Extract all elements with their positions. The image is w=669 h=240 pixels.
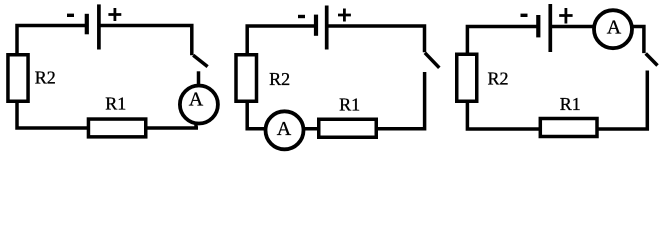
battery B2 negative plate [314, 15, 318, 36]
resistor R2 (box) [8, 55, 28, 102]
label + (battery B3 positive) [559, 8, 572, 24]
battery B3 positive plate [548, 4, 552, 52]
svg-text:R2: R2 [487, 69, 508, 89]
svg-text:R1: R1 [105, 93, 126, 113]
resistor R1 (box) [319, 119, 377, 137]
svg-text:R1: R1 [339, 95, 360, 115]
svg-text:A: A [277, 118, 292, 140]
wire: stub from ammeter bottom to bottom wire [194, 122, 198, 129]
resistor R2 (box) [457, 54, 477, 101]
switch S1 blade (open) [193, 55, 207, 66]
battery B3 negative plate [536, 15, 540, 37]
battery B2 positive plate [325, 6, 329, 50]
switch S2 blade (open) [425, 53, 439, 68]
label - (battery B1 negative) [67, 14, 74, 17]
ammeter A (circle) [594, 10, 632, 48]
wire: top-left rail and top wire to battery minus [247, 26, 314, 56]
svg-text:A: A [607, 16, 622, 38]
wire: battery plus to top-right corner, down right rail [329, 26, 425, 52]
wire: right rail below switch, bottom wire, left rail bottom [467, 71, 647, 130]
resistor R1 (box) [540, 119, 597, 137]
svg-text:A: A [189, 89, 204, 111]
resistor R2 (box) [236, 55, 257, 102]
wire: top-left rail and top wire to battery minus [467, 27, 536, 57]
label - (battery B2 negative) [298, 15, 305, 18]
label - (battery B3 negative) [521, 14, 528, 17]
wire: stub from switch to ammeter top [197, 71, 201, 86]
svg-text:R2: R2 [35, 67, 56, 87]
wire: battery plus to top-right corner, down right rail [101, 26, 192, 56]
switch S3 blade (open) [646, 54, 658, 66]
wire: battery plus to ammeter, to top-right corner, down right rail [552, 27, 644, 54]
resistor R1 (box) [88, 119, 145, 137]
svg-text:R1: R1 [560, 94, 581, 114]
wire: bottom wire and left rail bottom [17, 100, 198, 128]
label + (battery B2 positive) [338, 9, 351, 22]
wire: right rail below switch, bottom wire, left rail bottom [247, 72, 424, 129]
wire: top-left rail and top wire to battery minus [17, 26, 85, 57]
ammeter A (circle) [266, 111, 304, 149]
battery B1 negative plate [85, 14, 89, 35]
label + (battery B1 positive) [108, 8, 121, 21]
ammeter A (circle) [180, 86, 218, 124]
svg-text:R2: R2 [269, 69, 290, 89]
battery B1 positive plate [97, 4, 101, 49]
